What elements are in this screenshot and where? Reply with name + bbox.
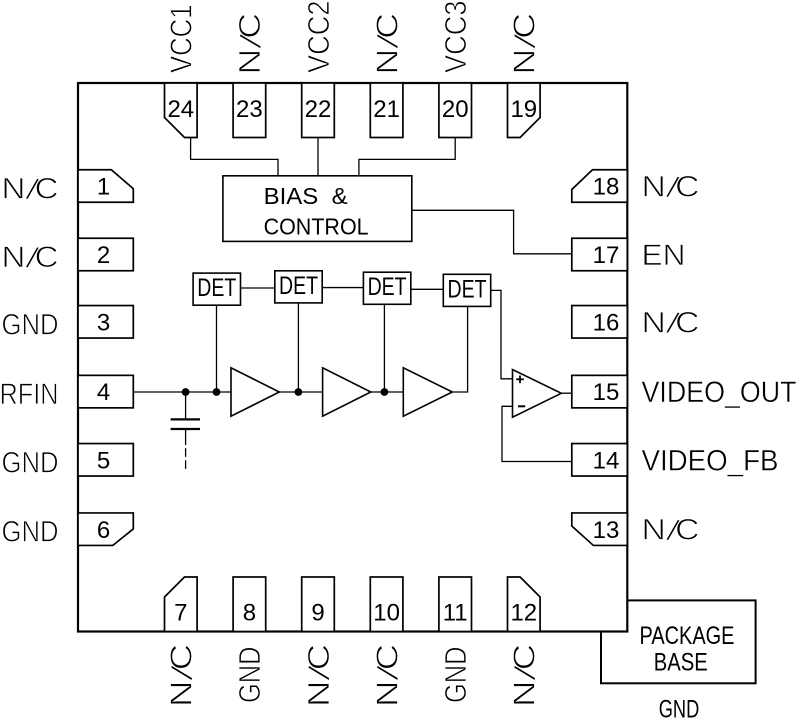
svg-text:21: 21	[373, 96, 400, 123]
svg-text:EN: EN	[642, 239, 686, 272]
svg-text:GND: GND	[2, 516, 59, 549]
svg-text:22: 22	[305, 96, 332, 123]
svg-text:N/C: N/C	[642, 514, 700, 549]
svg-text:8: 8	[243, 600, 256, 627]
svg-text:BASE: BASE	[654, 649, 708, 677]
svg-text:24: 24	[167, 96, 194, 123]
svg-text:DET: DET	[448, 275, 487, 303]
svg-text:N/C: N/C	[507, 644, 544, 707]
svg-text:VCC3: VCC3	[438, 1, 473, 74]
svg-text:DET: DET	[197, 274, 236, 302]
svg-text:23: 23	[236, 96, 263, 123]
svg-text:9: 9	[311, 600, 324, 627]
svg-text:17: 17	[593, 242, 620, 269]
svg-text:N/C: N/C	[642, 171, 700, 206]
svg-text:VCC1: VCC1	[164, 5, 199, 74]
svg-text:VIDEO_FB: VIDEO_FB	[642, 444, 779, 477]
svg-text:N/C: N/C	[369, 644, 406, 707]
svg-text:N/C: N/C	[301, 644, 338, 707]
svg-text:3: 3	[97, 309, 110, 336]
svg-text:19: 19	[510, 96, 537, 123]
svg-text:5: 5	[97, 447, 110, 474]
svg-text:GND: GND	[438, 647, 473, 704]
svg-text:1: 1	[97, 174, 110, 201]
svg-text:4: 4	[97, 379, 110, 406]
svg-text:N/C: N/C	[2, 173, 59, 208]
svg-text:GND: GND	[2, 308, 59, 341]
svg-text:N/C: N/C	[369, 13, 406, 75]
svg-text:GND: GND	[2, 446, 59, 479]
svg-text:N/C: N/C	[2, 241, 59, 276]
svg-text:GND: GND	[659, 695, 700, 720]
svg-text:RFIN: RFIN	[0, 378, 59, 411]
svg-text:N/C: N/C	[232, 13, 269, 75]
svg-text:DET: DET	[368, 273, 407, 301]
svg-text:7: 7	[174, 600, 187, 627]
svg-text:N/C: N/C	[164, 644, 201, 707]
svg-text:VCC2: VCC2	[301, 1, 336, 74]
svg-text:6: 6	[97, 517, 110, 544]
svg-text:BIAS &: BIAS &	[264, 183, 348, 209]
svg-text:16: 16	[593, 309, 620, 336]
svg-text:18: 18	[593, 174, 620, 201]
svg-text:15: 15	[593, 379, 620, 406]
svg-text:N/C: N/C	[507, 13, 544, 75]
svg-text:N/C: N/C	[642, 306, 700, 341]
svg-text:CONTROL: CONTROL	[264, 213, 369, 239]
svg-text:12: 12	[510, 600, 537, 627]
svg-text:10: 10	[373, 600, 400, 627]
svg-text:PACKAGE: PACKAGE	[640, 622, 735, 650]
svg-text:2: 2	[97, 242, 110, 269]
svg-text:11: 11	[443, 600, 468, 627]
svg-text:VIDEO_OUT: VIDEO_OUT	[642, 376, 797, 409]
svg-text:GND: GND	[232, 647, 267, 704]
svg-text:13: 13	[593, 517, 620, 544]
svg-text:14: 14	[593, 447, 620, 474]
svg-text:20: 20	[442, 96, 469, 123]
svg-text:DET: DET	[279, 272, 318, 300]
